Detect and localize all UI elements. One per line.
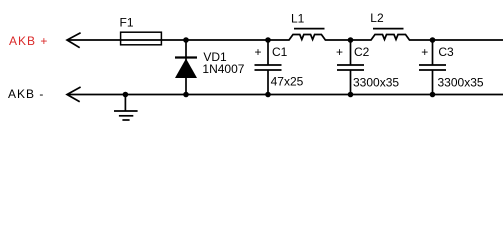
svg-text:3300x35: 3300x35: [438, 76, 484, 90]
svg-text:AKB -: AKB -: [8, 87, 44, 101]
svg-text:+: +: [421, 45, 428, 59]
svg-text:F1: F1: [120, 16, 134, 30]
svg-text:L2: L2: [370, 11, 384, 25]
svg-text:AKB +: AKB +: [9, 34, 48, 48]
svg-text:47x25: 47x25: [271, 75, 304, 89]
svg-text:C3: C3: [438, 45, 454, 59]
svg-text:1N4007: 1N4007: [202, 62, 244, 76]
svg-text:C2: C2: [354, 45, 370, 59]
svg-text:3300x35: 3300x35: [353, 76, 399, 90]
svg-text:C1: C1: [272, 45, 288, 59]
svg-text:+: +: [336, 45, 343, 59]
svg-text:L1: L1: [291, 12, 305, 26]
svg-text:+: +: [255, 45, 262, 59]
